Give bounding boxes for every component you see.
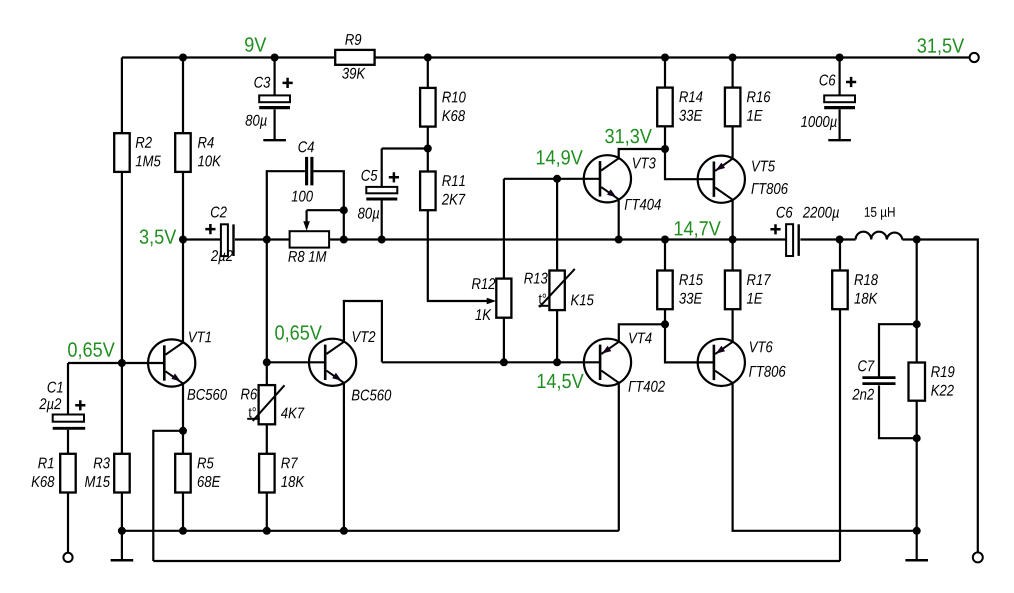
wire R11 column <box>427 149 429 172</box>
resistor R6 4K7 thermistor <box>259 385 276 424</box>
resistor R5 68E <box>175 454 191 493</box>
resistor R19 K22 <box>909 363 926 401</box>
terminal 31,5V output top right <box>970 53 979 62</box>
transistor VT1 BC560 <box>148 339 195 386</box>
capacitor C6 2200u <box>786 224 793 256</box>
wire output rail 14,7V <box>182 240 977 553</box>
node label 31,5V <box>917 38 964 55</box>
wire R10 column <box>427 58 429 149</box>
wire VT2 base column <box>266 240 268 531</box>
wire R2-R3 column <box>121 58 123 561</box>
potentiometer R12 1K <box>496 279 511 318</box>
node label 0,65V VT1 <box>68 342 115 359</box>
wire C3 column <box>274 58 276 140</box>
capacitor C1 2u2 <box>53 415 84 422</box>
resistor R11 2K7 <box>420 172 436 211</box>
wire R15 column <box>664 240 666 325</box>
wire R15 to VT6 base <box>665 324 713 362</box>
terminal bottom right <box>973 552 983 562</box>
capacitor C5 80u <box>366 187 397 193</box>
resistor R18 18K <box>832 271 848 310</box>
wire R12 bottom <box>503 318 505 363</box>
resistor R7 18K <box>259 454 275 493</box>
wire R4 column <box>182 58 184 240</box>
transistor VT5 GT806 <box>698 156 745 203</box>
capacitor C6 1000u <box>824 95 855 102</box>
node label 31,3V <box>605 129 652 146</box>
resistor R17 1E <box>725 271 741 310</box>
resistor R3 M15 <box>114 454 130 493</box>
wire R8 wiper arrow <box>306 210 308 222</box>
wire R14 column <box>664 58 666 150</box>
resistor R4 10K <box>175 133 191 172</box>
wire C6 1000u column <box>838 58 840 140</box>
transistor VT2 BC560 <box>309 339 356 386</box>
wire VT4 emitter jog <box>619 324 665 342</box>
wire feedback corner to bottom line <box>153 431 183 561</box>
wire R18 column <box>839 240 841 562</box>
ground under C6 <box>828 139 851 141</box>
wire R13 top <box>556 179 558 271</box>
wire R17 column <box>731 240 733 342</box>
resistor R13 K15 thermistor <box>549 271 564 311</box>
wire 9V top rail <box>122 56 969 58</box>
wire mid line VT4 base net 14,5V <box>382 361 599 363</box>
ground under R19 <box>905 559 928 562</box>
resistor R2 1M5 <box>114 133 130 172</box>
capacitor C4 100 <box>307 157 312 186</box>
ground left of R3 <box>111 559 134 562</box>
wire bottom rail segment left <box>122 530 619 532</box>
node label 0,65V VT2 <box>275 325 322 342</box>
inductor L1 15uH <box>856 232 903 240</box>
resistor R16 1E <box>725 88 741 127</box>
wire VT2 base line <box>267 361 325 363</box>
wire bottom feedback rail <box>153 560 840 562</box>
transistor VT6 GT806 <box>698 339 745 386</box>
resistor R9 39K <box>335 50 374 65</box>
node label 9V <box>245 37 266 52</box>
wire VT6 collector to bottom right <box>733 383 917 531</box>
wire VT1 emitter <box>182 240 184 343</box>
resistor R15 33E <box>657 271 673 310</box>
capacitor C2 2u2 <box>221 224 228 256</box>
wire R11 to R12 wiper <box>428 210 487 301</box>
capacitor C3 80u <box>259 95 290 102</box>
node label 14,7V <box>675 221 721 238</box>
node label 14,9V <box>537 150 583 167</box>
transistor VT3 GT404 <box>584 155 631 202</box>
junction dots <box>179 54 187 62</box>
wire C5 column <box>381 149 383 240</box>
wire C7 branch <box>879 324 917 438</box>
wire R16 column <box>731 58 733 159</box>
potentiometer R8 1M <box>290 231 330 247</box>
node label 14,5V <box>538 374 584 391</box>
resistor R1 K68 <box>60 454 75 493</box>
wire VT3 emitter <box>618 199 620 239</box>
wire VT1 collector to R5 <box>182 383 184 530</box>
wire VT2 collector <box>343 383 345 531</box>
wire C1 column input <box>67 363 69 553</box>
wire R14 to VT5 base <box>665 149 713 179</box>
wire C4 right branch <box>314 171 344 239</box>
wire R19 column <box>916 240 918 561</box>
wire R13 bottom <box>556 310 558 362</box>
terminal input bottom left <box>63 553 72 562</box>
wire VT4 collector <box>618 383 620 531</box>
capacitor C7 2n2 <box>862 378 895 384</box>
label 15 uH <box>865 207 895 220</box>
node label 3,5V <box>140 229 177 246</box>
wire VT2 emitter jog <box>344 301 382 362</box>
wire R8 wiper link <box>307 209 344 211</box>
wire C5 top link <box>382 147 428 149</box>
wire VT3 collector to R14 <box>619 149 665 158</box>
ground under C3 <box>263 139 286 141</box>
node 14,9V line to VT3 base <box>504 178 599 180</box>
wire C4 left branch <box>267 171 305 239</box>
wire VT5 collector <box>731 200 733 240</box>
resistor R14 33E <box>657 88 673 127</box>
node 3,5V base line VT1 <box>68 362 163 364</box>
transistor VT4 GT402 <box>584 339 631 386</box>
resistor R10 K68 <box>420 88 436 127</box>
wire R12 top column <box>503 179 505 279</box>
